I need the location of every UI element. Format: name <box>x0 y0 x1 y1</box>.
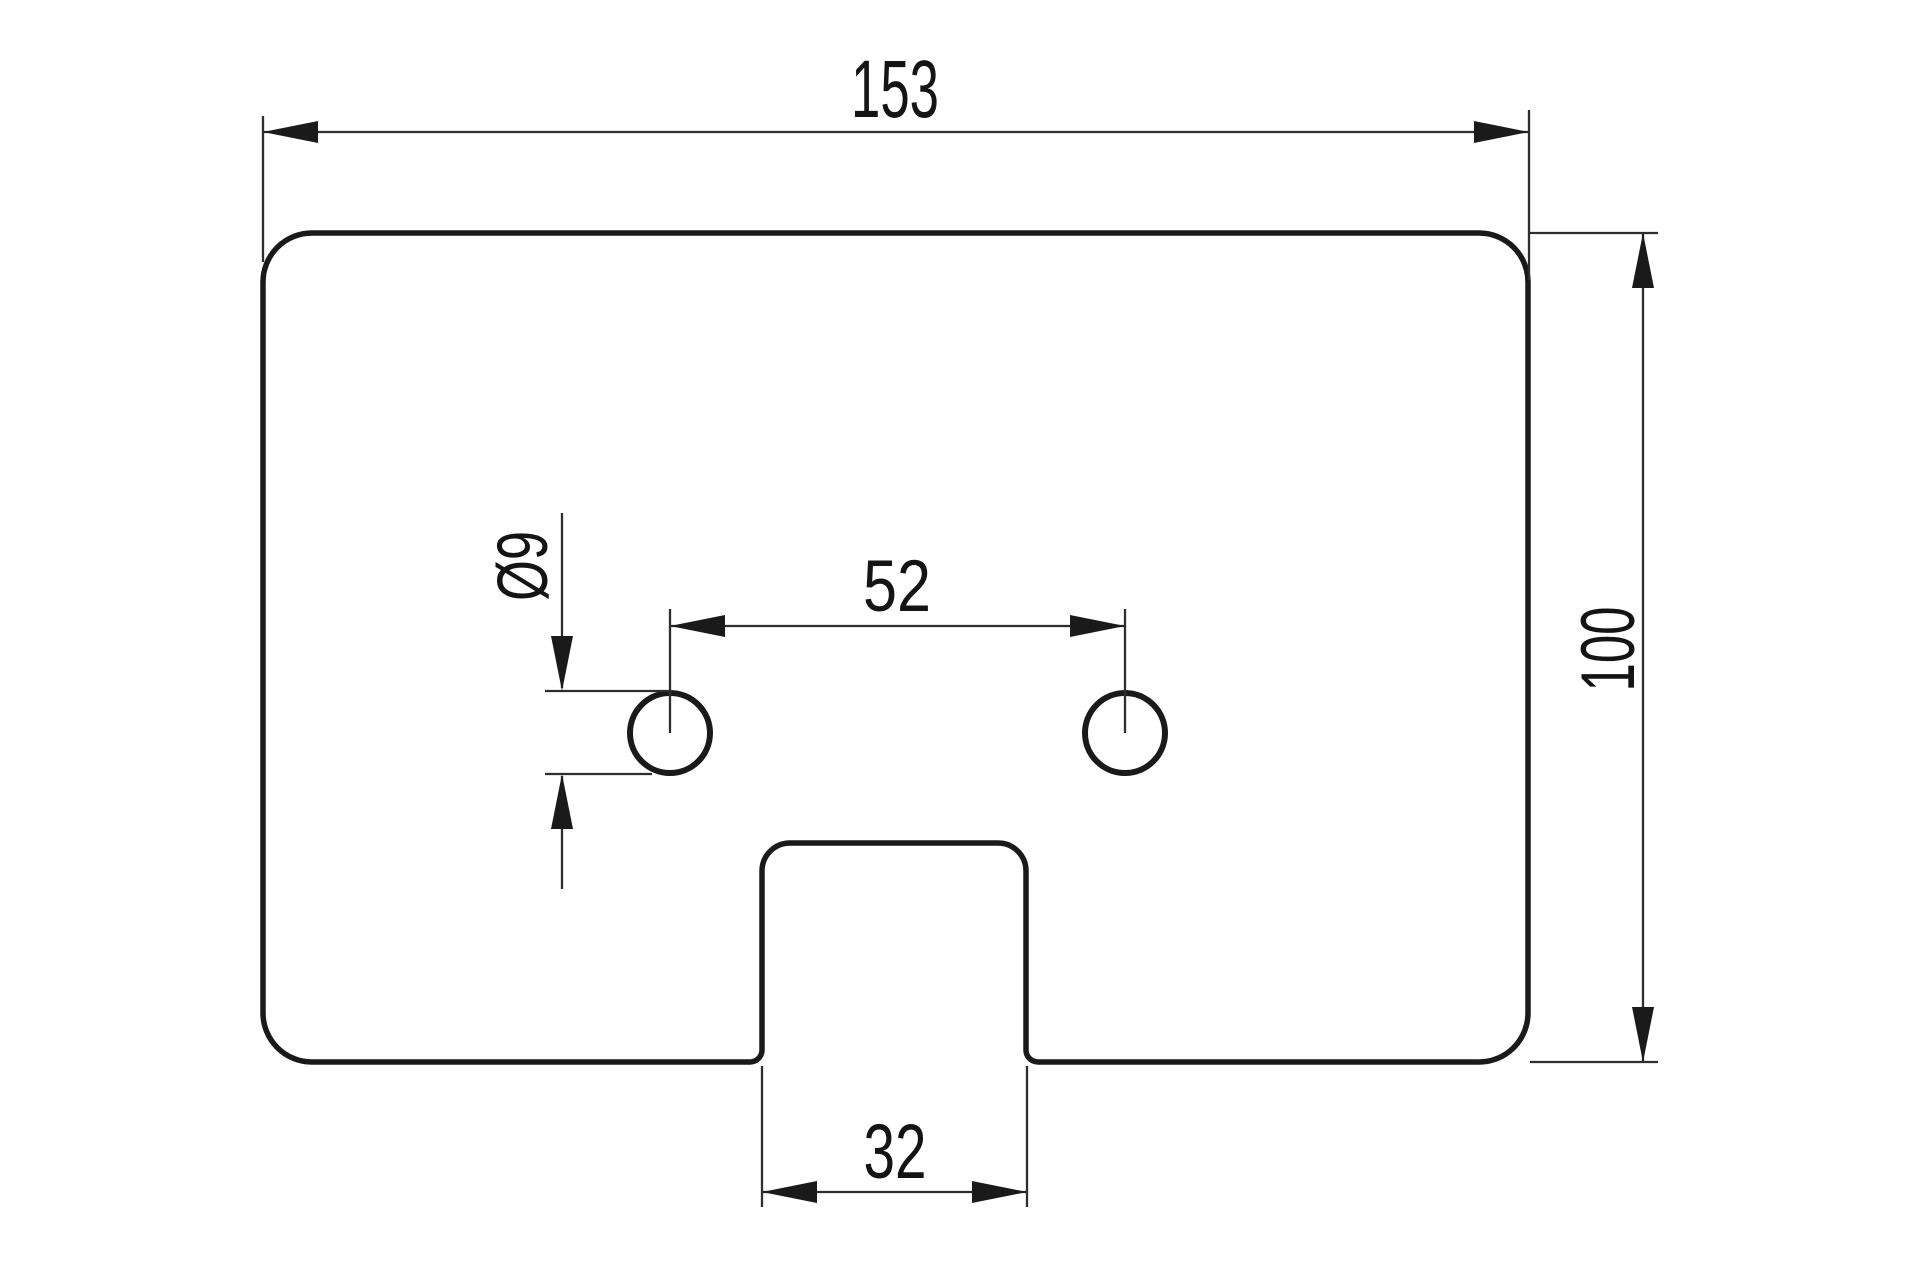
dim 153: arrow left <box>263 121 318 143</box>
svg-text:Ø9: Ø9 <box>484 531 563 601</box>
dim 32: dimension line <box>762 1191 1027 1193</box>
svg-text:32: 32 <box>864 1109 927 1195</box>
dim 32: arrow left <box>762 1181 817 1203</box>
dim 32: extension line right <box>1026 1066 1028 1207</box>
dim 52: dimension line <box>670 625 1125 627</box>
dim 100: arrow top <box>1632 233 1654 288</box>
hole left <box>630 693 710 773</box>
dim O9: upper arrow (down) <box>551 636 573 691</box>
dim 100: extension line bottom <box>1530 1061 1658 1063</box>
dim 52: arrow left <box>670 615 725 637</box>
dim 100: extension line top <box>1530 232 1658 234</box>
svg-text:100: 100 <box>1566 607 1651 692</box>
dim 153: extension line right <box>1528 110 1530 280</box>
plate outline with bottom notch <box>263 233 1528 1062</box>
svg-text:52: 52 <box>863 546 931 627</box>
dim O9: lower arrow (up) <box>551 774 573 829</box>
svg-text:153: 153 <box>851 44 939 135</box>
dim 52: center line left hole <box>669 609 671 733</box>
dim 52: center line right hole <box>1124 609 1126 733</box>
dim 153: arrow right <box>1474 121 1529 143</box>
hole right <box>1085 693 1165 773</box>
dim 100: dimension line <box>1642 233 1644 1062</box>
dim 32: arrow right <box>972 1181 1027 1203</box>
dim 100: arrow bottom <box>1632 1007 1654 1062</box>
dim 153: dimension line <box>263 131 1529 133</box>
dim O9: tangent line top <box>545 690 672 692</box>
dim 153: extension line left <box>262 116 264 262</box>
dim O9: tangent line bottom <box>545 773 652 775</box>
dim O9: upper leader line <box>561 513 563 688</box>
dim 52: arrow right <box>1070 615 1125 637</box>
dim 32: extension line left <box>761 1066 763 1207</box>
dim O9: lower leader line <box>561 776 563 889</box>
